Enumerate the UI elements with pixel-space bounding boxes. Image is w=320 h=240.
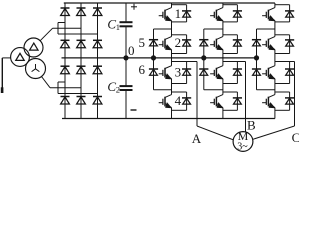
freewheel diode DC3 bbox=[275, 62, 294, 84]
wire: phase A to motor bbox=[197, 62, 233, 140]
label B bbox=[247, 118, 256, 133]
svg-text:C: C bbox=[292, 130, 299, 145]
svg-text:4: 4 bbox=[175, 93, 182, 108]
rectifier diodes, lower bridge leg 3 bbox=[93, 58, 102, 119]
clamp diode chain phase C (node 5/6) bbox=[252, 29, 275, 90]
IGBT SA3 bbox=[159, 66, 172, 79]
capacitor C2 bbox=[120, 58, 133, 119]
wire: midpoint rail (node 0) bbox=[62, 57, 257, 59]
wire: phase A main column bbox=[171, 3, 173, 119]
junction dot clamp B on midpoint rail bbox=[202, 56, 206, 60]
label A bbox=[192, 131, 202, 146]
svg-text:3~: 3~ bbox=[237, 142, 248, 153]
capacitor C1 bbox=[120, 3, 133, 58]
transformer primary winding (delta) bbox=[11, 48, 30, 67]
freewheel diode DA2 bbox=[172, 35, 192, 54]
junction dot clamp C on midpoint rail bbox=[254, 56, 258, 60]
svg-text:A: A bbox=[192, 131, 202, 146]
clamp diode chain phase B (node 5/6) bbox=[199, 29, 223, 90]
svg-text:3: 3 bbox=[175, 64, 182, 79]
wire: secondary 1 to upper bridge bbox=[40, 23, 97, 41]
rectifier diodes, lower bridge leg 1 bbox=[61, 58, 70, 119]
label 3 bbox=[175, 64, 182, 79]
IGBT SB2 bbox=[210, 37, 223, 50]
wire: negative dc rail bbox=[62, 118, 275, 120]
svg-text:1: 1 bbox=[116, 22, 120, 32]
freewheel diode DA4 bbox=[172, 92, 192, 110]
rectifier diodes, upper bridge leg 3 bbox=[93, 3, 102, 58]
wire: positive dc rail bbox=[64, 2, 275, 4]
motor M 3-phase bbox=[233, 129, 253, 152]
freewheel diode DB1 bbox=[223, 5, 242, 22]
freewheel diode DA1 bbox=[172, 5, 192, 22]
freewheel diode DC1 bbox=[275, 5, 294, 22]
grid supply bus bbox=[1, 58, 11, 93]
freewheel diode DB4 bbox=[223, 92, 242, 110]
svg-text:5: 5 bbox=[139, 35, 146, 50]
transformer secondary winding 2 (wye) bbox=[26, 59, 46, 79]
freewheel diode DB3 bbox=[223, 62, 242, 84]
wire: phase B output bbox=[223, 61, 246, 63]
wire: phase C output bbox=[275, 61, 295, 63]
svg-text:1: 1 bbox=[175, 6, 182, 21]
IGBT SA2 bbox=[159, 37, 172, 50]
IGBT SB4 bbox=[210, 95, 223, 108]
transformer secondary winding 1 (delta) bbox=[24, 38, 43, 57]
wire: phase B to motor bbox=[245, 62, 247, 132]
clamp diode chain phase A (node 5/6) bbox=[149, 29, 172, 90]
plus sign bbox=[131, 4, 137, 10]
IGBT SC3 bbox=[262, 66, 275, 79]
wire: phase C main column bbox=[274, 3, 276, 119]
IGBT SB3 bbox=[210, 66, 223, 79]
label C2 bbox=[107, 79, 120, 94]
wire: phase B main column bbox=[222, 3, 224, 119]
IGBT SA1 bbox=[159, 8, 172, 21]
freewheel diode DC4 bbox=[275, 92, 294, 110]
wire: phase A output bbox=[172, 61, 198, 63]
label 2 bbox=[175, 35, 182, 50]
wire: phase C to motor bbox=[253, 62, 295, 140]
freewheel diode DB2 bbox=[223, 35, 242, 54]
rectifier diodes, upper bridge leg 1 bbox=[61, 3, 70, 58]
IGBT SC4 bbox=[262, 95, 275, 108]
IGBT SC2 bbox=[262, 37, 275, 50]
rectifier diodes, lower bridge leg 2 bbox=[77, 58, 86, 119]
IGBT SB1 bbox=[210, 8, 223, 21]
svg-text:0: 0 bbox=[128, 43, 135, 58]
label C1 bbox=[107, 16, 120, 31]
wire: secondary 2 to lower bridge bbox=[42, 77, 98, 94]
IGBT SA4 bbox=[159, 95, 172, 108]
node 0 junction bbox=[124, 56, 128, 60]
label 5 bbox=[139, 35, 146, 50]
junction dot clamp A on midpoint rail bbox=[151, 56, 155, 60]
svg-text:2: 2 bbox=[116, 84, 120, 94]
svg-text:6: 6 bbox=[139, 62, 146, 77]
label node 0 bbox=[128, 43, 135, 58]
label 4 bbox=[175, 93, 182, 108]
svg-text:2: 2 bbox=[175, 35, 182, 50]
IGBT SC1 bbox=[262, 8, 275, 21]
label 6 bbox=[139, 62, 146, 77]
freewheel diode DA3 bbox=[172, 62, 192, 84]
label 1 bbox=[175, 6, 182, 21]
minus sign bbox=[131, 109, 137, 111]
freewheel diode DC2 bbox=[275, 35, 294, 54]
rectifier diodes, upper bridge leg 2 bbox=[77, 3, 86, 58]
label C bbox=[292, 130, 301, 145]
